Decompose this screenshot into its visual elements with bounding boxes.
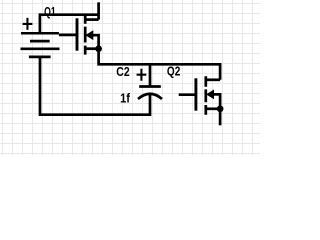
Q2 source lead (open end) bbox=[219, 109, 222, 126]
Q2 source stub bbox=[206, 107, 220, 110]
Q1 gate bar bbox=[76, 18, 79, 50]
battery plate 2 (short, -) bbox=[30, 40, 50, 43]
Q1 source stub bbox=[85, 47, 98, 50]
C2 plus sign bbox=[137, 69, 147, 81]
Q2 source-body junction dot bbox=[217, 105, 224, 112]
svg-text:1f: 1f bbox=[120, 91, 131, 105]
C2 top plate bbox=[139, 85, 161, 88]
svg-text:C2: C2 bbox=[116, 65, 129, 79]
Q1 gate wire from battery plate bbox=[59, 34, 77, 37]
Q2 gate stub (open) bbox=[179, 93, 196, 96]
Q1 channel bar (3 segments) bbox=[84, 16, 87, 55]
Q2 body wire with drop to source bbox=[212, 94, 220, 108]
Q2 body arrow head bbox=[207, 90, 214, 98]
wire: battery negative lead + bottom rail + C2 bottom lead bbox=[40, 57, 150, 115]
Q1 source-body junction dot bbox=[95, 45, 102, 52]
battery plus sign bbox=[23, 18, 33, 30]
svg-text:Q2: Q2 bbox=[167, 65, 180, 79]
Q1 body wire with drop to source bbox=[92, 35, 99, 49]
wire: battery + lead up and top rail to Q1 drain bbox=[40, 15, 99, 34]
Q2 gate bar bbox=[194, 78, 197, 110]
C2 curved bottom plate bbox=[138, 94, 162, 99]
battery plate 1 (long, +) bbox=[21, 32, 59, 35]
Q1 drain pin (sticks above rail) bbox=[97, 2, 100, 19]
wire: Q1 source to node, right along node, into Q2 drain pin bbox=[99, 49, 221, 80]
battery plate 3 (long, +) bbox=[21, 47, 60, 50]
Q1 body arrow head bbox=[86, 31, 93, 39]
C2 top lead bbox=[149, 64, 152, 86]
Q2 channel bar (3 segments) bbox=[204, 76, 207, 115]
Q1 drain stub bbox=[85, 18, 98, 21]
svg-text:Q1: Q1 bbox=[44, 5, 56, 19]
battery plate 4 (short, -) bbox=[29, 56, 51, 59]
Q2 drain stub bbox=[206, 78, 220, 81]
